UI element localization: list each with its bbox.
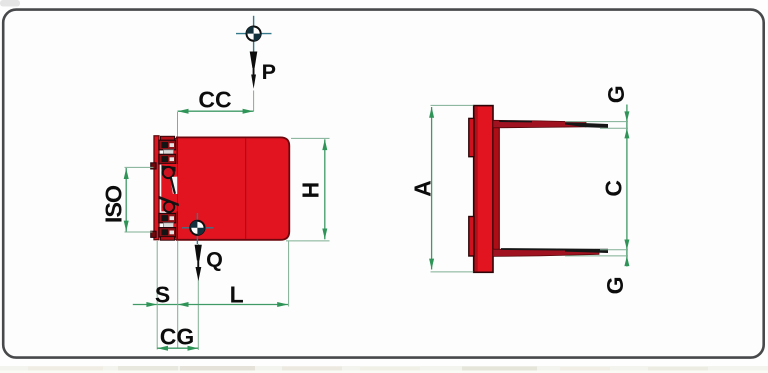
carriage plate <box>474 106 493 273</box>
bottom mounting tab <box>469 217 474 257</box>
C arrows <box>624 240 629 267</box>
bottom arm <box>493 248 608 256</box>
dimension A <box>429 105 473 272</box>
svg-text:P: P <box>262 60 276 84</box>
linkage pin upper <box>163 167 174 178</box>
top arm <box>493 120 608 128</box>
dimension CG <box>157 346 198 351</box>
bottom hook cap <box>161 237 175 241</box>
linkage diagonal rod <box>171 177 175 194</box>
top hook block upper <box>159 140 176 150</box>
svg-text:A: A <box>410 180 436 197</box>
dimension CC <box>178 109 254 137</box>
bottom cropped band <box>0 366 768 372</box>
dimension S and L main line <box>133 302 288 307</box>
top hook cap <box>161 136 175 140</box>
svg-text:G: G <box>602 276 628 294</box>
top hook bolt <box>164 150 174 155</box>
svg-text:Q: Q <box>206 248 223 272</box>
dimension H <box>286 138 330 241</box>
G top extension lines <box>565 121 628 123</box>
svg-text:S: S <box>155 282 170 308</box>
top hook tab <box>151 163 156 169</box>
P centerline lower segment <box>253 91 255 112</box>
svg-text:CC: CC <box>198 86 231 112</box>
frame strip between arms <box>493 122 499 255</box>
carriage back bar <box>154 136 159 240</box>
linkage red area <box>161 164 177 211</box>
bottom hook bolt <box>164 223 174 228</box>
CG symbol Q crosshair <box>182 213 214 244</box>
extension line body left edge <box>177 241 179 349</box>
svg-text:L: L <box>230 282 244 308</box>
svg-text:G: G <box>603 85 629 103</box>
top hook block lower <box>159 154 176 164</box>
dimension ISO <box>124 167 154 232</box>
svg-text:ISO: ISO <box>101 185 127 223</box>
linkage pin lower <box>164 202 174 212</box>
force arrow Q <box>195 245 202 281</box>
plate left shading <box>475 106 478 271</box>
extension line body right edge <box>288 241 290 306</box>
force arrow P <box>250 52 258 89</box>
svg-text:C: C <box>601 180 627 197</box>
G top arrows <box>624 111 629 138</box>
top-left smudge <box>0 0 20 7</box>
svg-text:H: H <box>298 182 324 199</box>
bottom hook tab <box>151 231 156 237</box>
linkage black top patch <box>162 166 176 172</box>
svg-text:CG: CG <box>160 324 195 350</box>
carriage face plate <box>170 139 177 240</box>
clamp body <box>177 137 289 239</box>
linkage white wedge <box>170 177 177 194</box>
top mounting tab <box>469 118 474 156</box>
dimension G top and C and G bottom line <box>626 105 628 267</box>
bottom hook block upper <box>159 213 176 222</box>
bottom hook block lower <box>159 228 176 237</box>
extension line S left <box>156 241 158 350</box>
body seam line <box>245 138 247 239</box>
CG symbol P crosshair <box>236 16 272 54</box>
linkage black band <box>159 196 179 207</box>
Q centerline <box>197 244 199 350</box>
G bottom extension lines <box>600 249 628 251</box>
